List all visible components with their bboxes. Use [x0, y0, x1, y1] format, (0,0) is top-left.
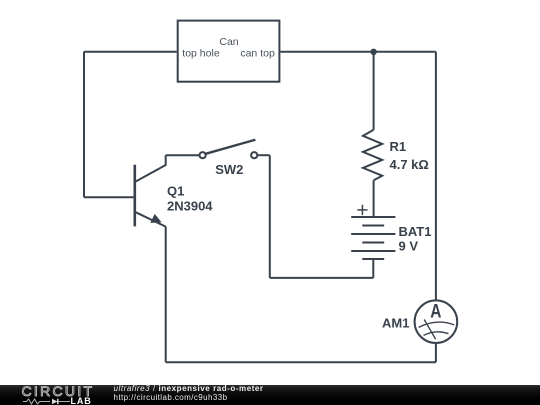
svg-text:A: A — [430, 301, 441, 322]
switch SW2 — [200, 140, 258, 159]
footer logo LAB — [71, 396, 92, 405]
wire right vertical to ammeter — [435, 52, 437, 301]
battery BAT1 — [351, 217, 395, 259]
wire collector to switch — [166, 154, 199, 156]
wire emitter vertical — [165, 226, 167, 362]
block Can — [178, 21, 280, 82]
wire base — [84, 196, 134, 198]
footer bar — [0, 385, 540, 405]
junction node dot — [370, 49, 376, 55]
footer url line — [114, 393, 228, 402]
transistor Q1 — [135, 155, 166, 226]
svg-text:Can: Can — [219, 36, 238, 48]
wire resistor bottom to battery top — [373, 180, 375, 217]
svg-text:2N3904: 2N3904 — [167, 198, 213, 213]
wire left vertical — [83, 52, 85, 198]
svg-text:BAT1: BAT1 — [399, 224, 432, 239]
wire right drop from switch — [269, 155, 271, 278]
wire bottom middle horizontal — [270, 277, 374, 279]
ammeter AM1 — [415, 300, 458, 343]
battery plus sign — [357, 205, 367, 215]
svg-text:9 V: 9 V — [399, 239, 419, 254]
svg-text:can top: can top — [240, 48, 275, 60]
svg-text:R1: R1 — [390, 139, 407, 154]
footer title line — [114, 384, 264, 393]
svg-text:AM1: AM1 — [382, 315, 409, 330]
wire bottom horizontal — [166, 361, 436, 363]
footer logo CIRCUIT — [22, 383, 95, 399]
wire up to battery negative — [372, 259, 374, 278]
wire can left pin — [84, 51, 177, 53]
wire ammeter bottom — [435, 343, 437, 362]
wire junction to resistor R1 top — [373, 52, 375, 130]
wire can right pin to right corner — [280, 51, 436, 53]
resistor R1 — [363, 130, 382, 181]
svg-text:SW2: SW2 — [215, 162, 243, 177]
svg-text:Q1: Q1 — [167, 184, 184, 199]
wire switch right to corner — [258, 154, 270, 156]
footer logo squiggle — [23, 398, 70, 405]
svg-text:4.7 kΩ: 4.7 kΩ — [390, 157, 429, 172]
svg-text:top hole: top hole — [182, 48, 220, 60]
